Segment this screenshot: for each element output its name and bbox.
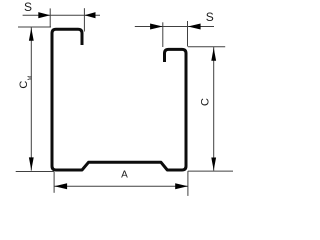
dimension C : arrowhead down	[211, 158, 216, 171]
dimension S right : extension line left	[162, 22, 164, 47]
dimension A : arrowhead right-pointing	[175, 183, 188, 189]
dimension C : arrowhead up	[211, 48, 216, 61]
dimension C : extension line top	[188, 46, 225, 48]
dimension A : dim line	[54, 185, 188, 187]
dimension S right : arrowhead left-pointing	[188, 24, 201, 30]
dimension CM : extension line bottom	[16, 171, 54, 173]
svg-text:C: C	[18, 81, 30, 89]
dimension S left : extension line left	[49, 8, 51, 27]
dimension S left : arrowhead right-pointing	[38, 12, 50, 18]
C-profile outline	[52, 29, 186, 170]
dimension A : extension line right	[187, 171, 189, 196]
dimension CM : extension line top	[18, 26, 51, 28]
dimension A : extension line left	[53, 172, 55, 193]
dimension C : extension line bottom	[188, 170, 233, 172]
svg-text:C: C	[199, 98, 211, 106]
dimension S right : dim line	[135, 26, 214, 28]
dimension CM : arrowhead down	[29, 157, 34, 170]
svg-text:S: S	[24, 0, 32, 14]
dimension S left : arrowhead left-pointing	[84, 12, 95, 18]
dimension A : arrowhead left-pointing	[54, 183, 67, 189]
dimension CM : dim line	[30, 27, 32, 170]
dimension C : dim line	[213, 47, 215, 171]
dimension S left : extension line right	[83, 8, 85, 31]
dimension CM : arrowhead up	[29, 28, 34, 41]
dimension S right : extension line right	[187, 21, 189, 47]
svg-text:A: A	[121, 170, 128, 181]
svg-text:S: S	[206, 10, 214, 24]
svg-text:M: M	[28, 75, 34, 80]
dimension S right : arrowhead right-pointing	[150, 24, 163, 30]
dimension S left : dim line	[23, 14, 100, 16]
